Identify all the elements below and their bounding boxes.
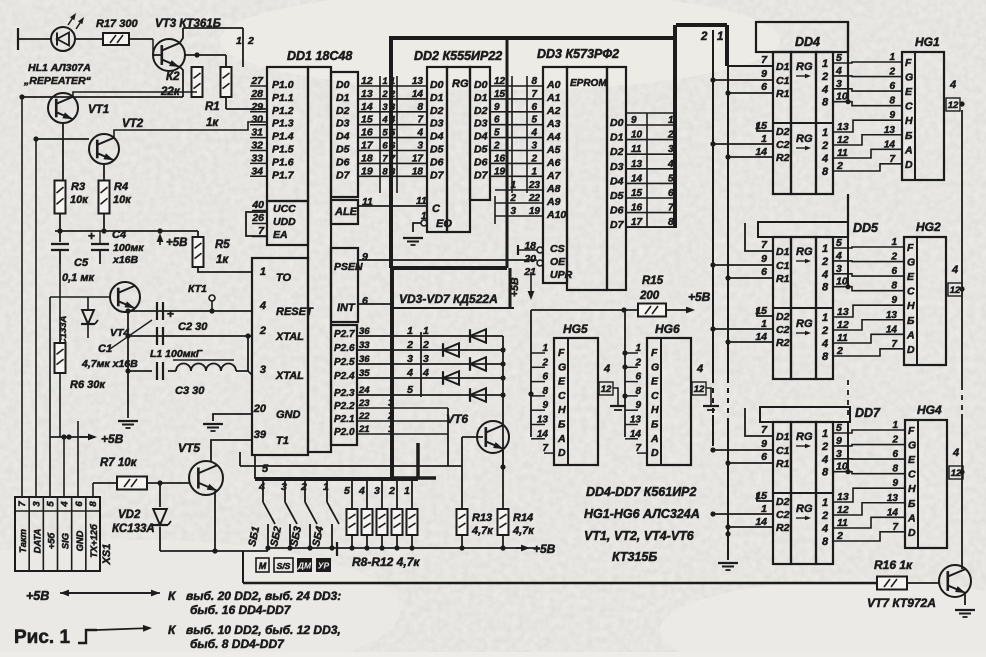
svg-text:D2: D2 (610, 146, 624, 158)
svg-text:CS: CS (550, 243, 565, 255)
svg-text:A: A (650, 433, 659, 445)
svg-text:+: + (167, 307, 174, 321)
svg-text:R1: R1 (776, 88, 790, 100)
svg-text:RG: RG (452, 78, 469, 90)
svg-text:1: 1 (822, 58, 828, 70)
svg-text:2: 2 (821, 256, 828, 268)
svg-text:18: 18 (412, 166, 424, 177)
svg-text:G: G (651, 361, 659, 373)
svg-text:A2: A2 (546, 105, 561, 117)
svg-text:RG: RG (796, 246, 813, 258)
svg-text:2: 2 (821, 140, 828, 152)
svg-text:H: H (651, 404, 659, 416)
svg-text:1: 1 (260, 266, 266, 278)
svg-text:8: 8 (822, 536, 829, 548)
svg-text:HG2: HG2 (916, 220, 941, 234)
svg-text:C2: C2 (776, 139, 790, 151)
svg-text:VT2: VT2 (122, 118, 144, 130)
svg-text:D0: D0 (610, 117, 624, 129)
svg-text:1: 1 (404, 485, 410, 497)
svg-text:13: 13 (412, 76, 424, 87)
svg-text:G: G (905, 72, 913, 84)
svg-text:1: 1 (822, 497, 828, 509)
svg-text:4: 4 (951, 264, 958, 276)
svg-text:R1: R1 (205, 101, 220, 113)
svg-text:4: 4 (821, 523, 828, 535)
svg-text:1: 1 (717, 31, 723, 43)
svg-text:C1: C1 (776, 75, 790, 87)
svg-text:4: 4 (821, 269, 828, 281)
svg-text:C: C (558, 390, 566, 402)
svg-text:D0: D0 (336, 79, 350, 91)
svg-text:9: 9 (362, 251, 368, 263)
svg-text:4: 4 (835, 65, 842, 77)
svg-text:ТХ+12б: ТХ+12б (88, 523, 99, 558)
svg-text:+5В: +5В (166, 237, 187, 249)
svg-text:A: A (906, 329, 915, 341)
svg-text:3: 3 (382, 102, 388, 113)
svg-text:32: 32 (251, 140, 263, 152)
svg-text:R14: R14 (513, 512, 533, 524)
svg-text:К2: К2 (166, 71, 180, 83)
svg-text:HG4: HG4 (917, 403, 942, 417)
svg-text:D: D (907, 344, 915, 356)
svg-text:2: 2 (381, 89, 388, 100)
svg-text:UPR: UPR (550, 269, 573, 281)
svg-text:КТ315Б: КТ315Б (612, 550, 657, 564)
svg-text:R7 10к: R7 10к (100, 457, 138, 469)
svg-text:С3 30: С3 30 (175, 385, 205, 397)
svg-text:VT6: VT6 (446, 412, 468, 426)
svg-text:TO: TO (276, 272, 292, 284)
svg-text:10к: 10к (70, 194, 89, 206)
svg-text:20: 20 (253, 403, 267, 415)
svg-text:3: 3 (531, 141, 537, 152)
svg-text:4: 4 (258, 481, 265, 493)
svg-text:12: 12 (948, 100, 959, 111)
svg-text:17: 17 (412, 153, 424, 164)
svg-text:2: 2 (836, 530, 843, 542)
svg-text:4: 4 (422, 367, 429, 379)
svg-text:14: 14 (412, 89, 424, 100)
svg-text:1: 1 (323, 481, 329, 493)
svg-text:1к: 1к (206, 117, 219, 129)
svg-text:D: D (905, 159, 913, 171)
svg-text:VD2: VD2 (118, 509, 141, 521)
svg-text:D7: D7 (474, 169, 489, 181)
svg-text:A0: A0 (546, 79, 561, 91)
svg-text:P2.2: P2.2 (334, 401, 355, 412)
svg-text:D2: D2 (430, 105, 444, 117)
svg-text:D2: D2 (474, 105, 488, 117)
svg-text:PSEN: PSEN (334, 261, 363, 273)
svg-text:1: 1 (822, 312, 828, 324)
svg-text:H: H (907, 300, 915, 312)
svg-text:3: 3 (423, 353, 429, 365)
svg-text:11: 11 (837, 517, 848, 529)
svg-text:2: 2 (836, 160, 843, 172)
svg-text:Б: Б (651, 419, 659, 431)
svg-text:200: 200 (639, 290, 660, 302)
svg-text:XTAL: XTAL (275, 370, 304, 382)
svg-text:A9: A9 (546, 196, 561, 208)
svg-text:D7: D7 (336, 169, 351, 181)
svg-text:RG: RG (796, 61, 813, 73)
svg-text:XTAL: XTAL (275, 331, 304, 343)
svg-text:EO: EO (436, 218, 452, 230)
svg-text:VТ1, VТ2, VТ4-VТ6: VТ1, VТ2, VТ4-VТ6 (584, 529, 695, 543)
svg-text:P1.3: P1.3 (272, 118, 294, 130)
svg-text:R2: R2 (776, 522, 790, 534)
svg-text:D3: D3 (474, 118, 488, 130)
svg-text:12: 12 (950, 285, 961, 296)
svg-text:1: 1 (388, 424, 394, 435)
svg-text:быб. 16 DD4-DD7: быб. 16 DD4-DD7 (190, 603, 292, 617)
svg-text:D5: D5 (336, 144, 350, 156)
svg-text:4: 4 (821, 454, 828, 466)
svg-text:R16 1к: R16 1к (874, 558, 913, 572)
svg-text:S/S: S/S (277, 561, 291, 571)
svg-text:2: 2 (821, 441, 828, 453)
svg-text:D: D (651, 447, 659, 459)
svg-text:P2.4: P2.4 (334, 371, 355, 382)
svg-text:6: 6 (531, 102, 537, 113)
svg-text:9: 9 (761, 253, 767, 265)
svg-text:P1.2: P1.2 (272, 105, 294, 117)
svg-text:КС133А: КС133А (112, 523, 155, 535)
svg-text:D1: D1 (776, 431, 790, 443)
svg-text:P2.3: P2.3 (334, 388, 355, 399)
svg-text:2: 2 (259, 325, 266, 337)
svg-text:C: C (908, 469, 916, 481)
svg-text:RG: RG (796, 318, 813, 330)
svg-text:С2 30: С2 30 (178, 321, 208, 333)
svg-text:DD4-DD7 К561ИР2: DD4-DD7 К561ИР2 (586, 485, 697, 499)
svg-text:P2.7: P2.7 (334, 329, 355, 340)
svg-text:DD2 К555ИР22: DD2 К555ИР22 (414, 49, 502, 63)
svg-text:D4: D4 (474, 131, 488, 143)
svg-text:1к: 1к (216, 254, 229, 266)
svg-text:DATA: DATA (31, 528, 42, 553)
svg-text:R5: R5 (215, 239, 230, 251)
svg-text:C: C (905, 101, 913, 113)
svg-text:4: 4 (949, 79, 956, 91)
svg-text:1: 1 (822, 127, 828, 139)
svg-text:4: 4 (381, 115, 388, 126)
svg-text:8: 8 (417, 102, 423, 113)
svg-text:7: 7 (17, 501, 28, 507)
svg-text:A4: A4 (546, 131, 561, 143)
svg-text:9: 9 (761, 68, 767, 80)
svg-text:Рис. 1: Рис. 1 (14, 627, 70, 648)
svg-text:Б: Б (907, 315, 915, 327)
svg-text:быб. 8 DD4-DD7: быб. 8 DD4-DD7 (190, 637, 285, 651)
svg-text:6: 6 (761, 81, 767, 93)
svg-text:12: 12 (694, 384, 705, 395)
svg-text:P1.6: P1.6 (272, 156, 294, 168)
svg-text:„REPEATER“: „REPEATER“ (23, 75, 92, 87)
svg-text:D1: D1 (336, 92, 350, 104)
svg-text:P2.0: P2.0 (334, 427, 355, 438)
svg-text:2: 2 (300, 481, 307, 493)
svg-text:DD7: DD7 (855, 406, 881, 420)
svg-text:HG1-HG6 АЛС324А: HG1-HG6 АЛС324А (584, 507, 700, 521)
svg-text:26: 26 (251, 212, 264, 224)
svg-text:3: 3 (260, 364, 266, 376)
svg-text:12: 12 (601, 384, 612, 395)
svg-text:D5: D5 (474, 144, 488, 156)
svg-text:М: М (259, 561, 267, 571)
svg-text:5: 5 (836, 237, 842, 249)
svg-text:3: 3 (836, 263, 842, 275)
svg-text:1: 1 (822, 428, 828, 440)
svg-text:31: 31 (251, 127, 263, 139)
svg-text:D2: D2 (776, 496, 790, 508)
svg-text:F: F (558, 347, 565, 359)
svg-text:H: H (905, 115, 913, 127)
svg-text:G: G (908, 440, 916, 452)
svg-text:+5В: +5В (533, 542, 556, 556)
svg-text:F: F (651, 347, 658, 359)
svg-text:L1 100мкГ: L1 100мкГ (150, 348, 203, 360)
svg-text:выб. 20 DD2, выб. 24 DD3:: выб. 20 DD2, выб. 24 DD3: (186, 589, 341, 603)
svg-text:0,1 мк: 0,1 мк (62, 272, 95, 284)
svg-text:6: 6 (382, 141, 388, 152)
svg-text:GND: GND (276, 409, 301, 421)
svg-text:2: 2 (406, 339, 413, 351)
svg-text:+5В: +5В (26, 589, 49, 603)
svg-text:4: 4 (821, 153, 828, 165)
svg-text:х16В: х16В (112, 254, 139, 266)
svg-text:8: 8 (822, 467, 829, 479)
svg-text:1: 1 (423, 325, 429, 337)
svg-text:RG: RG (796, 503, 813, 515)
svg-text:КТ1: КТ1 (188, 283, 207, 295)
svg-text:D4: D4 (336, 131, 350, 143)
svg-text:21: 21 (523, 266, 536, 278)
svg-text:8: 8 (822, 97, 829, 109)
svg-text:6: 6 (362, 295, 368, 307)
svg-text:P1.4: P1.4 (272, 131, 294, 143)
svg-text:A3: A3 (546, 118, 561, 130)
svg-text:G: G (907, 257, 915, 269)
svg-text:P2.6: P2.6 (334, 343, 355, 354)
svg-text:2: 2 (821, 71, 828, 83)
svg-text:A: A (557, 433, 566, 445)
svg-text:VT5: VT5 (178, 441, 200, 455)
svg-text:R2: R2 (776, 337, 790, 349)
svg-text:ALE: ALE (334, 206, 358, 218)
svg-text:OE: OE (550, 256, 566, 268)
svg-text:C2: C2 (776, 509, 790, 521)
svg-text:D1: D1 (430, 92, 444, 104)
svg-text:8: 8 (88, 501, 99, 507)
svg-text:A6: A6 (546, 157, 561, 169)
svg-text:R1: R1 (776, 273, 790, 285)
svg-text:29: 29 (250, 101, 263, 113)
svg-text:13: 13 (837, 121, 849, 133)
svg-text:D: D (558, 447, 566, 459)
svg-text:R8-R12 4,7к: R8-R12 4,7к (352, 555, 420, 569)
svg-text:+5В: +5В (688, 290, 711, 304)
svg-text:9: 9 (836, 435, 842, 447)
svg-text:E: E (907, 271, 915, 283)
svg-text:6: 6 (761, 451, 767, 463)
svg-text:RG: RG (796, 133, 813, 145)
svg-text:4: 4 (603, 363, 610, 375)
svg-text:1: 1 (531, 166, 537, 177)
svg-text:A8: A8 (546, 183, 561, 195)
svg-text:D7: D7 (610, 219, 625, 231)
svg-text:7: 7 (417, 115, 423, 126)
svg-text:VT7 КТ972А: VT7 КТ972А (867, 596, 936, 610)
svg-text:4: 4 (821, 338, 828, 350)
svg-text:2: 2 (422, 339, 429, 351)
svg-text:F: F (905, 57, 912, 69)
svg-text:D1: D1 (474, 92, 488, 104)
svg-text:С4: С4 (112, 229, 126, 241)
svg-text:4: 4 (835, 250, 842, 262)
svg-text:D6: D6 (610, 205, 624, 217)
svg-text:5: 5 (382, 128, 388, 139)
svg-text:D4: D4 (430, 131, 444, 143)
svg-text:D6: D6 (336, 156, 350, 168)
svg-text:A5: A5 (546, 144, 561, 156)
svg-text:D2: D2 (776, 311, 790, 323)
svg-text:D5: D5 (430, 144, 444, 156)
svg-text:D4: D4 (610, 175, 624, 187)
svg-text:5: 5 (836, 52, 842, 64)
svg-text:2: 2 (530, 153, 537, 164)
svg-text:10к: 10к (113, 194, 132, 206)
svg-text:P2.5: P2.5 (334, 357, 355, 368)
svg-text:C2: C2 (776, 324, 790, 336)
svg-text:2: 2 (388, 485, 395, 497)
svg-text:A: A (907, 512, 916, 524)
svg-text:3: 3 (836, 448, 842, 460)
svg-text:100мк: 100мк (113, 242, 144, 254)
svg-text:С1: С1 (98, 343, 112, 355)
svg-text:7: 7 (382, 153, 388, 164)
svg-text:4,7к: 4,7к (512, 525, 535, 537)
svg-text:+5В: +5В (101, 432, 124, 446)
svg-text:1: 1 (236, 35, 242, 47)
svg-text:VT1: VT1 (88, 104, 109, 116)
svg-text:5: 5 (262, 463, 269, 475)
svg-text:R4: R4 (114, 181, 128, 193)
svg-text:4: 4 (358, 485, 365, 497)
svg-text:GND: GND (74, 530, 85, 551)
svg-text:E: E (558, 376, 566, 388)
svg-text:8: 8 (822, 166, 829, 178)
svg-text:27: 27 (250, 75, 264, 87)
svg-text:H: H (908, 483, 916, 495)
svg-text:13: 13 (837, 491, 849, 503)
svg-text:RESET: RESET (276, 306, 314, 318)
svg-text:A10: A10 (546, 209, 566, 221)
svg-text:5: 5 (45, 501, 56, 507)
svg-text:EA: EA (273, 229, 288, 241)
svg-text:C1: C1 (776, 260, 790, 272)
svg-text:8: 8 (531, 76, 537, 87)
svg-text:D3: D3 (610, 161, 624, 173)
svg-text:D1: D1 (776, 246, 790, 258)
svg-text:4,7к: 4,7к (471, 525, 494, 537)
svg-text:39: 39 (254, 429, 267, 441)
svg-text:УР: УР (318, 561, 330, 571)
svg-text:R6 30к: R6 30к (70, 379, 106, 391)
svg-text:P2.1: P2.1 (334, 414, 355, 425)
svg-text:3: 3 (417, 141, 423, 152)
svg-text:D3: D3 (336, 118, 350, 130)
svg-text:D1: D1 (610, 132, 624, 144)
svg-text:12: 12 (837, 504, 849, 516)
svg-text:40: 40 (251, 199, 264, 211)
svg-text:ХS1: ХS1 (101, 544, 113, 566)
svg-text:HG6: HG6 (655, 322, 680, 336)
svg-text:E: E (908, 454, 916, 466)
svg-text:A7: A7 (546, 170, 562, 182)
svg-text:4: 4 (952, 447, 959, 459)
svg-text:ДМ: ДМ (297, 561, 312, 571)
svg-text:20: 20 (523, 253, 536, 265)
svg-text:3: 3 (836, 78, 842, 90)
svg-text:С5: С5 (74, 257, 89, 269)
svg-text:2: 2 (836, 345, 843, 357)
svg-text:2: 2 (821, 325, 828, 337)
svg-text:D: D (908, 527, 916, 539)
svg-text:Такт: Такт (17, 529, 28, 553)
svg-text:C: C (651, 390, 659, 402)
svg-text:VD3-VD7 КД522А: VD3-VD7 КД522А (399, 292, 498, 306)
svg-text:1: 1 (382, 76, 387, 87)
svg-text:UDD: UDD (273, 216, 296, 228)
svg-text:C: C (432, 203, 441, 215)
svg-text:R1: R1 (776, 458, 790, 470)
svg-text:5: 5 (531, 115, 537, 126)
svg-text:8: 8 (822, 351, 829, 363)
svg-text:2: 2 (821, 510, 828, 522)
svg-text:выб. 10 DD2, быб. 12 DD3,: выб. 10 DD2, быб. 12 DD3, (186, 623, 341, 637)
svg-text:F: F (908, 425, 915, 437)
svg-text:D7: D7 (430, 169, 445, 181)
svg-text:T1: T1 (276, 435, 289, 447)
svg-text:4: 4 (416, 128, 423, 139)
svg-text:12: 12 (837, 319, 849, 331)
svg-text:6: 6 (74, 501, 85, 507)
svg-text:D2: D2 (336, 105, 350, 117)
svg-text:7: 7 (531, 89, 537, 100)
svg-text:A1: A1 (546, 92, 561, 104)
svg-text:1: 1 (822, 243, 828, 255)
svg-text:D1: D1 (776, 61, 790, 73)
svg-text:13: 13 (837, 306, 849, 318)
svg-text:2: 2 (247, 35, 254, 47)
svg-text:H: H (558, 404, 566, 416)
svg-text:5: 5 (836, 422, 842, 434)
svg-text:DD1 18С48: DD1 18С48 (287, 49, 352, 63)
svg-text:SIG: SIG (60, 533, 71, 549)
svg-text:A: A (904, 144, 913, 156)
svg-text:30: 30 (251, 114, 263, 126)
svg-text:4: 4 (530, 128, 537, 139)
svg-text:4: 4 (667, 159, 674, 170)
svg-text:3: 3 (31, 501, 42, 507)
svg-text:C: C (907, 286, 915, 298)
svg-text:4: 4 (696, 363, 703, 375)
svg-text:2: 2 (700, 31, 708, 43)
svg-text:E: E (651, 376, 659, 388)
